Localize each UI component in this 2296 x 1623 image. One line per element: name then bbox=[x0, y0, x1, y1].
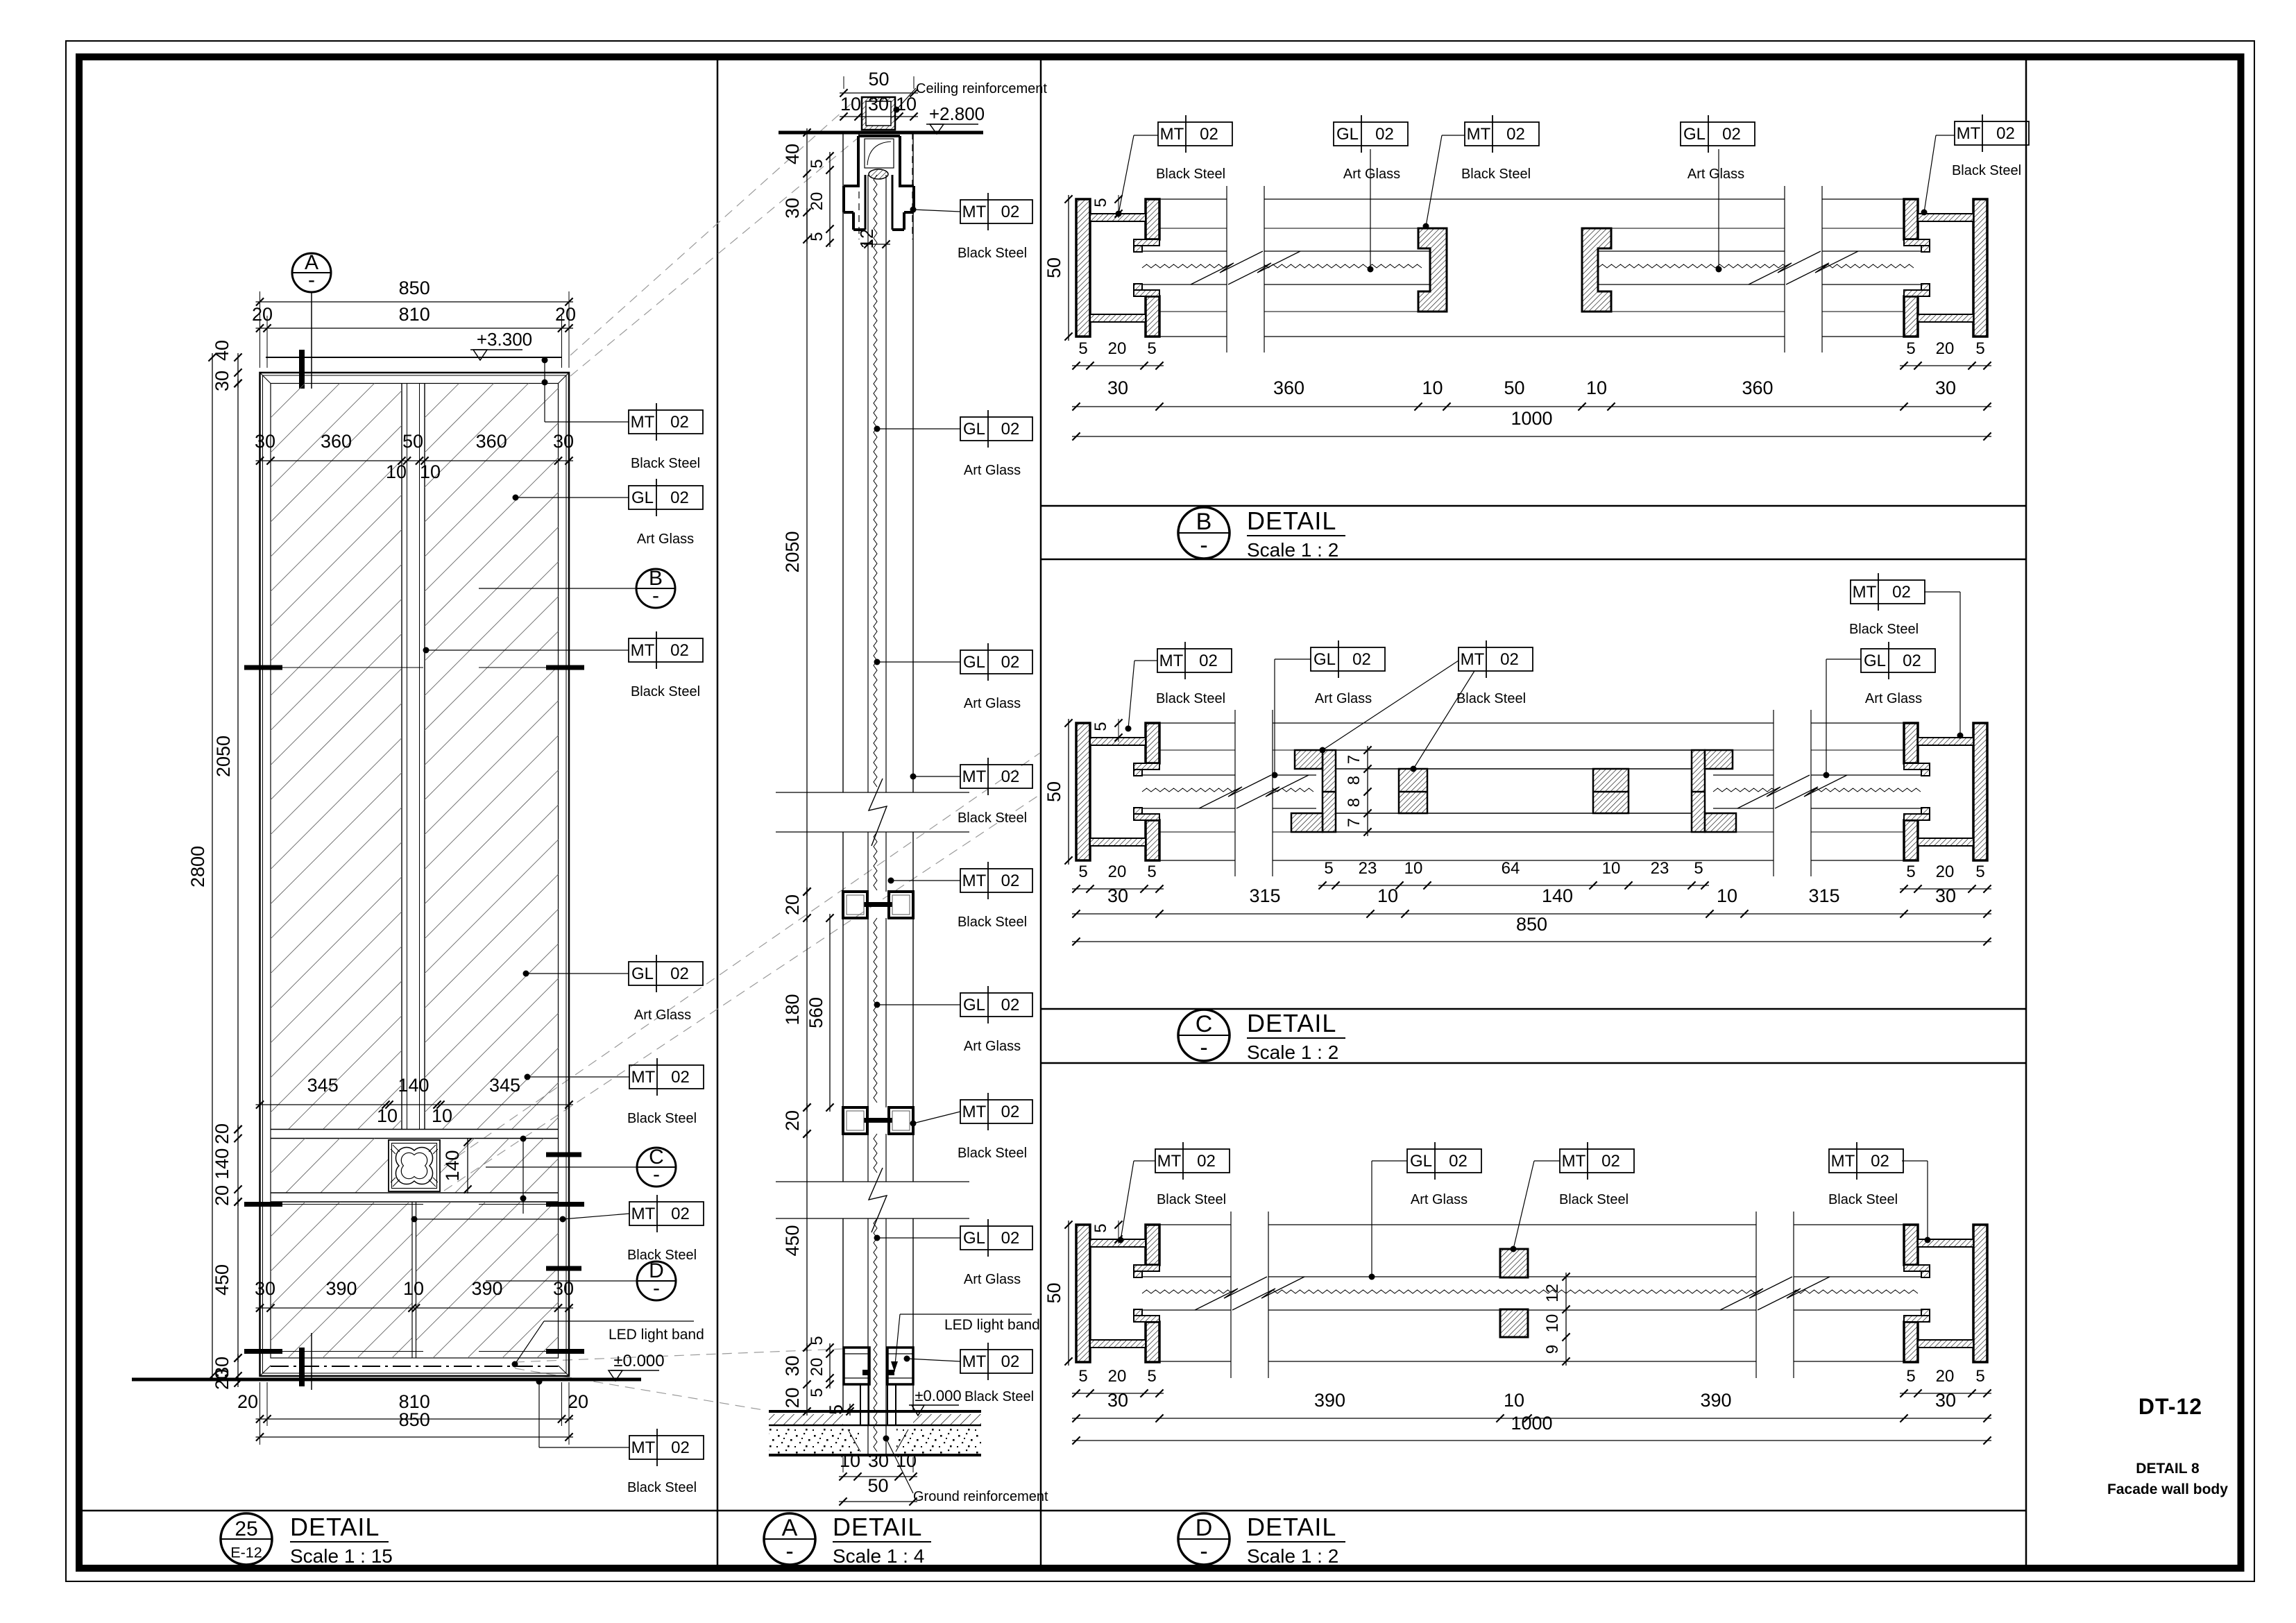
svg-text:DETAIL 8: DETAIL 8 bbox=[2136, 1461, 2200, 1477]
svg-text:345: 345 bbox=[307, 1075, 339, 1096]
svg-text:850: 850 bbox=[399, 1409, 430, 1430]
section circle A top bbox=[292, 251, 331, 389]
dim chain A bottom 30-20 bbox=[782, 1343, 811, 1416]
svg-text:360: 360 bbox=[476, 431, 507, 452]
svg-text:50: 50 bbox=[1504, 377, 1524, 398]
svg-text:30: 30 bbox=[1107, 377, 1128, 398]
B mid block right MT02 bbox=[1582, 228, 1611, 312]
svg-text:02: 02 bbox=[1449, 1152, 1468, 1171]
elevation inner frame line bbox=[263, 375, 567, 1373]
panel divider left/middle bbox=[717, 57, 719, 1568]
section cut bar right C bbox=[546, 1153, 581, 1157]
dim 450 A bbox=[782, 1130, 811, 1352]
svg-text:-: - bbox=[1200, 532, 1207, 559]
svg-text:Art Glass: Art Glass bbox=[1687, 167, 1744, 182]
svg-text:02: 02 bbox=[1199, 652, 1218, 670]
section cut tick A bottom bbox=[299, 1333, 312, 1390]
svg-text:7: 7 bbox=[1345, 755, 1363, 764]
svg-text:MT: MT bbox=[1467, 125, 1491, 144]
cross band 1 bbox=[271, 1130, 559, 1139]
projection dashed line to A head 2 bbox=[570, 139, 857, 376]
ceiling reinforcement box bbox=[862, 97, 895, 130]
svg-text:5: 5 bbox=[1906, 863, 1915, 881]
svg-text:10: 10 bbox=[1717, 885, 1737, 906]
svg-text:30: 30 bbox=[868, 94, 889, 114]
svg-text:8: 8 bbox=[1345, 776, 1363, 785]
D block bottom MT02 bbox=[1500, 1309, 1528, 1337]
svg-text:50: 50 bbox=[868, 69, 889, 90]
projection dashed line to A head 1 bbox=[570, 99, 857, 355]
svg-text:02: 02 bbox=[670, 965, 689, 983]
floor concrete stipple bbox=[769, 1428, 981, 1454]
svg-text:10: 10 bbox=[896, 1450, 917, 1471]
svg-text:5: 5 bbox=[1147, 339, 1156, 358]
section cut tick A top bbox=[299, 350, 305, 389]
dim 20 mullion1 bbox=[782, 887, 811, 922]
B tube left MT02 bbox=[1076, 199, 1159, 337]
B break mark left bbox=[1191, 186, 1300, 352]
svg-text:20: 20 bbox=[1108, 863, 1127, 881]
svg-text:20: 20 bbox=[782, 894, 803, 915]
B dims bottom tubes bbox=[1072, 339, 1991, 370]
svg-text:50: 50 bbox=[867, 1475, 888, 1496]
svg-text:02: 02 bbox=[1200, 125, 1218, 144]
svg-text:5: 5 bbox=[808, 159, 826, 168]
svg-text:02: 02 bbox=[671, 1438, 690, 1457]
svg-text:MT: MT bbox=[962, 203, 987, 221]
svg-text:23: 23 bbox=[1359, 859, 1377, 878]
svg-text:5: 5 bbox=[1091, 198, 1110, 207]
svg-text:850: 850 bbox=[1516, 914, 1547, 935]
D glass full GL02 bbox=[1142, 1277, 1921, 1310]
C leaders bbox=[1125, 592, 1964, 779]
svg-text:MT: MT bbox=[1160, 125, 1184, 144]
svg-text:02: 02 bbox=[1197, 1152, 1216, 1171]
svg-text:02: 02 bbox=[1903, 652, 1921, 670]
D break mark left bbox=[1195, 1212, 1304, 1378]
svg-text:Black Steel: Black Steel bbox=[1559, 1192, 1629, 1207]
label MT02 A-5 bbox=[888, 862, 1033, 930]
svg-text:Black Steel: Black Steel bbox=[631, 456, 700, 471]
floor top line +-0.000 bbox=[769, 1410, 981, 1413]
svg-text:50: 50 bbox=[402, 431, 423, 452]
label GL02 A-3 bbox=[874, 643, 1033, 711]
svg-text:10: 10 bbox=[840, 94, 861, 114]
label MT02 no2 bbox=[629, 631, 703, 699]
svg-text:-: - bbox=[308, 269, 315, 291]
title D circle bbox=[1178, 1513, 1230, 1565]
svg-text:40: 40 bbox=[782, 144, 803, 164]
svg-text:30: 30 bbox=[782, 1355, 803, 1376]
svg-text:450: 450 bbox=[212, 1264, 232, 1295]
svg-text:10: 10 bbox=[432, 1105, 452, 1126]
svg-text:Art Glass: Art Glass bbox=[1865, 691, 1922, 706]
svg-text:5: 5 bbox=[1078, 1367, 1087, 1386]
svg-text:02: 02 bbox=[1001, 996, 1020, 1014]
svg-text:02: 02 bbox=[1871, 1152, 1889, 1171]
svg-text:10: 10 bbox=[386, 461, 407, 482]
svg-text:GL: GL bbox=[1336, 125, 1359, 144]
glass pane ornament-left hatch bbox=[216, 1138, 409, 1193]
svg-text:5: 5 bbox=[808, 1388, 826, 1397]
svg-text:DETAIL: DETAIL bbox=[290, 1513, 380, 1541]
svg-text:Scale 1 : 2: Scale 1 : 2 bbox=[1247, 1042, 1338, 1063]
section circle D bbox=[486, 1259, 676, 1300]
svg-text:±0.000: ±0.000 bbox=[613, 1352, 664, 1370]
svg-text:GL: GL bbox=[1313, 650, 1336, 669]
svg-text:30: 30 bbox=[255, 431, 275, 452]
head profile MT02 bbox=[844, 136, 914, 230]
dim 12 glass bbox=[856, 229, 890, 249]
svg-text:315: 315 bbox=[1249, 885, 1280, 906]
title C circle bbox=[1178, 1010, 1230, 1061]
svg-text:MT: MT bbox=[1461, 650, 1485, 669]
section cut bars B bbox=[244, 665, 584, 670]
sheet number DT-12 bbox=[2138, 1394, 2202, 1419]
label MT02 A-7 bbox=[910, 1093, 1033, 1161]
svg-text:25: 25 bbox=[235, 1518, 257, 1540]
section circle C bbox=[486, 1146, 676, 1187]
dim 560 A bbox=[806, 914, 834, 1112]
B glass right GL02 bbox=[1598, 251, 1921, 284]
svg-text:GL: GL bbox=[1683, 125, 1706, 144]
leader MT02 no3 bbox=[525, 1074, 630, 1080]
floor line bbox=[132, 1378, 641, 1382]
svg-text:10: 10 bbox=[1422, 377, 1443, 398]
svg-text:Ground reinforcement: Ground reinforcement bbox=[913, 1489, 1048, 1504]
B leaders bbox=[1116, 135, 1955, 273]
svg-text:560: 560 bbox=[806, 997, 826, 1028]
section cut bars D floor bbox=[244, 1349, 584, 1354]
svg-text:02: 02 bbox=[670, 413, 689, 432]
svg-text:20: 20 bbox=[237, 1391, 258, 1412]
svg-text:Art Glass: Art Glass bbox=[964, 463, 1021, 478]
svg-text:GL: GL bbox=[963, 420, 985, 439]
svg-text:2050: 2050 bbox=[213, 736, 234, 777]
svg-text:Black Steel: Black Steel bbox=[1952, 163, 2021, 178]
level marker +2.800 bbox=[926, 103, 985, 134]
svg-text:-: - bbox=[1200, 1538, 1207, 1565]
C dims bottom tubes bbox=[1072, 863, 1991, 893]
title strip line bbox=[79, 1510, 2026, 1512]
svg-text:10: 10 bbox=[840, 1450, 860, 1471]
mullion profile A at 1285 bbox=[843, 892, 913, 918]
label MT02 no1 bbox=[629, 403, 703, 471]
label GL02 A-6 bbox=[874, 986, 1033, 1054]
leader GL02 no2 bbox=[523, 971, 629, 977]
svg-text:5: 5 bbox=[1091, 722, 1110, 731]
svg-text:20: 20 bbox=[212, 1369, 232, 1390]
svg-text:30: 30 bbox=[553, 431, 574, 452]
svg-text:Art Glass: Art Glass bbox=[1315, 691, 1372, 706]
svg-text:390: 390 bbox=[1314, 1390, 1345, 1411]
D dim 1000 bbox=[1072, 1413, 1991, 1445]
svg-text:MT: MT bbox=[962, 1103, 987, 1121]
svg-text:450: 450 bbox=[782, 1225, 803, 1256]
corner mitre top-right bbox=[559, 373, 570, 384]
svg-text:64: 64 bbox=[1502, 859, 1520, 878]
LED dash-dot line bbox=[271, 1366, 559, 1367]
projection dashed line to D detail 2 bbox=[515, 1368, 763, 1410]
dim 20-810-20 bottom bbox=[237, 1382, 588, 1445]
label MT02 no5 bbox=[627, 1429, 704, 1495]
D dim 12-10-9 bbox=[1543, 1273, 1570, 1366]
svg-text:-: - bbox=[652, 584, 659, 607]
sheet title Facade wall body bbox=[2107, 1481, 2228, 1497]
panel divider middle/right bbox=[1040, 57, 1042, 1568]
glass zigzag centerline bbox=[874, 175, 877, 1452]
svg-text:Black Steel: Black Steel bbox=[964, 1389, 1034, 1404]
svg-text:5: 5 bbox=[1091, 1223, 1110, 1232]
section cut bars C mid bbox=[244, 1202, 584, 1207]
B mid block left MT02 bbox=[1418, 228, 1447, 312]
svg-text:8: 8 bbox=[1345, 798, 1363, 807]
svg-text:Scale 1 : 2: Scale 1 : 2 bbox=[1247, 1545, 1338, 1567]
ceiling line bbox=[779, 131, 983, 135]
title A circle bbox=[764, 1513, 815, 1565]
svg-text:Black Steel: Black Steel bbox=[627, 1480, 697, 1495]
svg-text:20: 20 bbox=[252, 304, 273, 325]
svg-text:5: 5 bbox=[1975, 1367, 1984, 1386]
svg-text:D: D bbox=[1196, 1515, 1213, 1541]
dim 20-810-20 top bbox=[252, 304, 576, 368]
glass pane lower-left hatch bbox=[114, 1202, 548, 1358]
glass pane upper-left hatch bbox=[0, 383, 1138, 1130]
svg-text:20: 20 bbox=[1936, 863, 1955, 881]
svg-text:10: 10 bbox=[1586, 377, 1607, 398]
D long sight lines bbox=[1159, 1225, 1904, 1361]
svg-text:Ceiling reinforcement: Ceiling reinforcement bbox=[916, 81, 1047, 96]
svg-text:20: 20 bbox=[808, 1358, 826, 1377]
svg-text:MT: MT bbox=[631, 1438, 656, 1457]
dim 50 ground bbox=[839, 1475, 917, 1506]
D dims bottom tubes bbox=[1072, 1367, 1991, 1397]
B break mark right bbox=[1749, 186, 1858, 352]
dim 50 ceiling bbox=[840, 69, 918, 97]
svg-text:Art Glass: Art Glass bbox=[637, 532, 694, 547]
svg-text:Black Steel: Black Steel bbox=[958, 246, 1027, 261]
svg-text:Art Glass: Art Glass bbox=[1343, 167, 1400, 182]
leader GL02 no1 bbox=[513, 495, 629, 501]
dim 5 inner bottom bbox=[826, 1404, 854, 1416]
C connector block 1 MT02 bbox=[1399, 769, 1427, 813]
C glass right GL02 bbox=[1713, 775, 1921, 808]
B long sight lines bbox=[1159, 199, 1904, 337]
svg-text:MT: MT bbox=[1831, 1152, 1855, 1171]
svg-text:20: 20 bbox=[1108, 339, 1127, 358]
glass pane upper-right hatch bbox=[0, 383, 1292, 1130]
B dim 1000 bbox=[1072, 408, 1991, 441]
svg-text:180: 180 bbox=[782, 994, 803, 1025]
svg-text:02: 02 bbox=[1506, 125, 1525, 144]
svg-text:02: 02 bbox=[1722, 125, 1741, 144]
svg-text:1000: 1000 bbox=[1511, 408, 1552, 429]
svg-text:Black Steel: Black Steel bbox=[958, 1146, 1027, 1161]
svg-text:50: 50 bbox=[1044, 257, 1064, 278]
C break mark right bbox=[1737, 710, 1847, 876]
svg-text:30: 30 bbox=[212, 371, 232, 391]
wall face line left bbox=[842, 133, 844, 1411]
B dim 50 left bbox=[1044, 195, 1073, 341]
ornament corner hatch bbox=[391, 1145, 438, 1187]
svg-text:10: 10 bbox=[377, 1105, 398, 1126]
leader MT02 no2 bbox=[423, 647, 629, 654]
svg-text:5: 5 bbox=[1975, 863, 1984, 881]
svg-text:DETAIL: DETAIL bbox=[833, 1513, 922, 1541]
svg-text:30: 30 bbox=[868, 1450, 889, 1471]
svg-text:5: 5 bbox=[1906, 1367, 1915, 1386]
svg-text:MT: MT bbox=[631, 413, 655, 432]
dim 10-30-10 ceiling bbox=[840, 94, 918, 121]
mullion profile A at 1596 bbox=[843, 1107, 913, 1134]
break mark A at 1703 bbox=[776, 1168, 969, 1232]
svg-text:LED light band: LED light band bbox=[609, 1327, 704, 1343]
svg-text:30: 30 bbox=[1107, 885, 1128, 906]
svg-text:Black Steel: Black Steel bbox=[1456, 691, 1526, 706]
dim chain A 5-20-5 top bbox=[808, 152, 834, 247]
leader MT02 no5 bbox=[536, 1379, 630, 1448]
svg-text:+3.300: +3.300 bbox=[477, 329, 532, 350]
corner mitre bottom-left bbox=[260, 1366, 271, 1376]
C dims sub chain bbox=[1318, 859, 1709, 890]
svg-text:02: 02 bbox=[670, 641, 689, 660]
svg-text:1000: 1000 bbox=[1511, 1413, 1552, 1434]
floor screed hatch bbox=[769, 1414, 981, 1425]
svg-text:5: 5 bbox=[1078, 863, 1087, 881]
svg-text:Black Steel: Black Steel bbox=[958, 915, 1027, 930]
projection dashed line to C detail 1 bbox=[444, 753, 1040, 1166]
D tube left MT02 bbox=[1076, 1225, 1159, 1362]
ground leader sketch lines bbox=[848, 1429, 908, 1452]
B glass left GL02 bbox=[1142, 251, 1430, 284]
label MT02 A-4 bbox=[910, 758, 1033, 826]
title B DETAIL text bbox=[1247, 507, 1345, 561]
svg-text:Art Glass: Art Glass bbox=[634, 1008, 691, 1023]
svg-text:360: 360 bbox=[1742, 377, 1773, 398]
bottom shoe profiles MT02 with LED bbox=[844, 1348, 913, 1425]
svg-text:10: 10 bbox=[1504, 1390, 1524, 1411]
svg-text:-: - bbox=[1200, 1035, 1207, 1061]
svg-text:140: 140 bbox=[212, 1148, 232, 1180]
svg-text:B: B bbox=[1196, 509, 1212, 535]
label GL02 A-8 bbox=[874, 1219, 1033, 1287]
svg-text:GL: GL bbox=[1864, 652, 1886, 670]
svg-text:+2.800: +2.800 bbox=[929, 103, 985, 124]
svg-text:5: 5 bbox=[826, 1404, 847, 1415]
dim 2800 left bbox=[187, 353, 216, 1380]
section circle B bbox=[479, 567, 675, 608]
title D DETAIL text bbox=[1247, 1513, 1345, 1567]
label GL02 no2 bbox=[629, 955, 703, 1023]
svg-text:10: 10 bbox=[403, 1278, 424, 1299]
svg-text:50: 50 bbox=[1044, 1282, 1064, 1303]
C connector block 2 MT02 bbox=[1593, 769, 1629, 813]
svg-text:140: 140 bbox=[442, 1150, 463, 1181]
svg-text:MT: MT bbox=[962, 1352, 987, 1371]
svg-text:Art Glass: Art Glass bbox=[1411, 1192, 1468, 1207]
D leaders bbox=[1118, 1161, 1931, 1280]
svg-text:E-12: E-12 bbox=[230, 1544, 262, 1561]
svg-text:Scale 1 : 4: Scale 1 : 4 bbox=[833, 1545, 924, 1567]
dim chain left 40-30 bbox=[212, 340, 242, 391]
svg-text:20: 20 bbox=[568, 1391, 588, 1412]
dim 850 top bbox=[256, 278, 574, 368]
level marker +-0.000 A bbox=[909, 1387, 1034, 1416]
svg-text:30: 30 bbox=[1935, 1390, 1956, 1411]
svg-text:Black Steel: Black Steel bbox=[1849, 622, 1919, 637]
wall face line right bbox=[912, 133, 914, 1411]
leader MT02 no1 bbox=[542, 357, 629, 423]
svg-text:MT: MT bbox=[631, 1205, 656, 1223]
svg-text:140: 140 bbox=[398, 1075, 429, 1096]
svg-text:10: 10 bbox=[1377, 885, 1398, 906]
D block top MT02 bbox=[1500, 1249, 1528, 1277]
svg-text:30: 30 bbox=[1107, 1390, 1128, 1411]
svg-text:02: 02 bbox=[670, 488, 689, 507]
svg-text:GL: GL bbox=[1410, 1152, 1432, 1171]
svg-text:Facade wall body: Facade wall body bbox=[2107, 1481, 2228, 1497]
label LED light band A bbox=[891, 1314, 1040, 1372]
C bracket right MT02 bbox=[1692, 750, 1736, 832]
svg-text:02: 02 bbox=[1001, 872, 1020, 890]
svg-text:Art Glass: Art Glass bbox=[964, 1272, 1021, 1287]
svg-text:MT: MT bbox=[1157, 1152, 1182, 1171]
glass pane edge lines bbox=[868, 175, 886, 1454]
svg-text:MT: MT bbox=[1562, 1152, 1586, 1171]
label GL02 A-2 bbox=[874, 410, 1033, 478]
C dim 5 dip bbox=[1091, 719, 1123, 742]
title 25 DETAIL text bbox=[290, 1513, 393, 1567]
svg-text:30: 30 bbox=[1935, 377, 1956, 398]
projection dashed line to D shoe 1 bbox=[515, 1349, 842, 1362]
svg-text:360: 360 bbox=[1273, 377, 1304, 398]
leader MT02 no4 bbox=[411, 1198, 630, 1223]
C break mark left bbox=[1199, 710, 1309, 876]
C tube right MT02 bbox=[1904, 723, 1987, 860]
label Ceiling reinforcement bbox=[894, 81, 1048, 113]
svg-text:GL: GL bbox=[631, 488, 654, 507]
dim chain left 30-20 bottom bbox=[212, 1354, 242, 1390]
title C DETAIL text bbox=[1247, 1009, 1345, 1063]
svg-text:20: 20 bbox=[782, 1110, 803, 1131]
dim 450 left bbox=[212, 1198, 242, 1362]
corner mitre top-left bbox=[260, 373, 271, 384]
ornament quatrefoil bbox=[396, 1147, 432, 1184]
dim 20 mullion2 bbox=[782, 1103, 811, 1138]
hidden dashed ceiling edges bbox=[859, 133, 912, 239]
floor bottom line bbox=[769, 1454, 981, 1456]
projection dashed line to C detail 2 bbox=[444, 794, 1040, 1191]
svg-text:GL: GL bbox=[963, 1229, 985, 1248]
C dims row2 bbox=[1072, 885, 1991, 918]
svg-text:20: 20 bbox=[555, 304, 576, 325]
svg-text:02: 02 bbox=[671, 1205, 690, 1223]
label Ground reinforcement bbox=[883, 1436, 1048, 1505]
svg-text:MT: MT bbox=[631, 641, 655, 660]
svg-text:Black Steel: Black Steel bbox=[631, 684, 700, 699]
svg-text:02: 02 bbox=[1375, 125, 1394, 144]
svg-text:MT: MT bbox=[631, 1068, 656, 1087]
label MT02 A-9 bbox=[904, 1343, 1033, 1380]
svg-text:40: 40 bbox=[212, 340, 232, 361]
C dim 850 bbox=[1072, 914, 1991, 946]
dim chain A 40-30 top bbox=[782, 128, 811, 244]
svg-text:02: 02 bbox=[1001, 767, 1020, 786]
svg-text:23: 23 bbox=[1651, 859, 1669, 878]
C long sight lines bbox=[1159, 723, 1904, 860]
svg-text:360: 360 bbox=[321, 431, 352, 452]
svg-text:Scale 1 : 2: Scale 1 : 2 bbox=[1247, 539, 1338, 561]
